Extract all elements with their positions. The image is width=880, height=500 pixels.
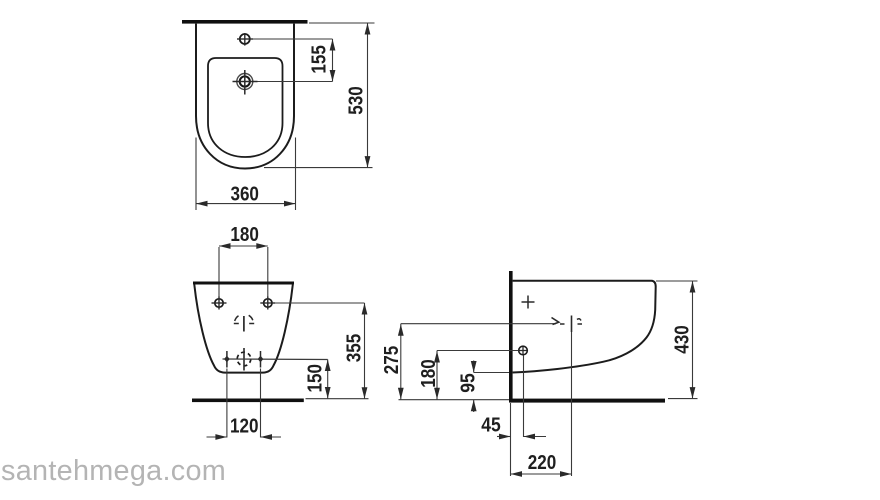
leader through drain to 150 (223, 358, 328, 361)
svg-text:155: 155 (308, 45, 330, 74)
svg-text:220: 220 (528, 452, 557, 474)
dimension 95 (side, outside arrows) (457, 361, 479, 413)
dimension 150 (front, drain height) (304, 360, 330, 399)
wall bar (plan) (182, 20, 308, 24)
floor bar (side) (509, 399, 665, 403)
svg-text:180: 180 (418, 359, 440, 388)
svg-text:430: 430 (672, 325, 694, 354)
mounting shelf bar (front) (192, 399, 304, 403)
dimension 530 (plan, depth) (264, 23, 375, 168)
floor reference line (side, left of wall) (399, 399, 510, 401)
right fixing hole (front) (260, 297, 275, 310)
watermark santehmega.com (1, 455, 226, 487)
svg-text:95: 95 (457, 373, 479, 393)
bidet inner bowl outline (plan) (208, 58, 283, 157)
leader from right fixing hole to 355 (275, 302, 364, 304)
svg-text:120: 120 (230, 416, 259, 438)
faucet hole extension line (571, 332, 573, 476)
svg-text:275: 275 (381, 346, 403, 375)
wall face extension line (below floor) (510, 403, 512, 476)
dimension 220 (side) (511, 452, 572, 477)
dimension 180 (side) (418, 351, 440, 400)
left fixing hole (front) (212, 297, 227, 310)
svg-text:150: 150 (304, 364, 326, 393)
drain hole (front, dashed circle) (237, 348, 251, 371)
dimension 155 (plan, hole spacing) (308, 39, 335, 82)
left drain bolt mark (224, 351, 230, 368)
small tap hole (plan) (237, 33, 253, 46)
right drain bolt mark (258, 351, 264, 368)
leader 95 to body bottom at wall (474, 372, 509, 374)
bidet top rim edge (front) (193, 282, 294, 285)
leader from faucet hole (258, 81, 333, 83)
main faucet hole (plan) (233, 70, 258, 95)
leader 180 to supply hole (437, 350, 519, 352)
bidet profile outline (side) (513, 281, 656, 373)
dimension 120 (front, drain bolts) (207, 369, 282, 440)
svg-text:45: 45 (481, 415, 501, 437)
hidden water inlet (front, dashed) (234, 315, 254, 331)
leader from small hole (253, 38, 333, 40)
svg-text:530: 530 (346, 86, 368, 115)
bidet body outline (front) (194, 285, 292, 373)
wall fixing cross (side) (522, 296, 535, 309)
wall bar (side) (509, 271, 513, 402)
dimension 360 (plan, width) (196, 138, 296, 211)
svg-text:180: 180 (230, 224, 259, 246)
dimension 180 (front, fixing holes) (219, 224, 268, 297)
svg-text:360: 360 (230, 183, 259, 205)
dimension 275 (side) (381, 324, 403, 400)
svg-text:355: 355 (344, 334, 366, 363)
hidden faucet hole (side, dashed) (560, 316, 582, 333)
supply hole extension line (523, 356, 525, 438)
floor reference line (front) (306, 398, 369, 400)
dimension 355 (front, fixing hole height) (344, 303, 368, 399)
bidet outer outline (plan) (196, 24, 294, 169)
dimension 45 (side, outside arrows) (481, 415, 546, 440)
svg-text:santehmega.com: santehmega.com (1, 455, 226, 487)
leader 275 to faucet hole with arrow (401, 318, 559, 325)
dimension 430 (side, overall height) (656, 281, 698, 399)
water supply hole (side) (519, 346, 528, 355)
